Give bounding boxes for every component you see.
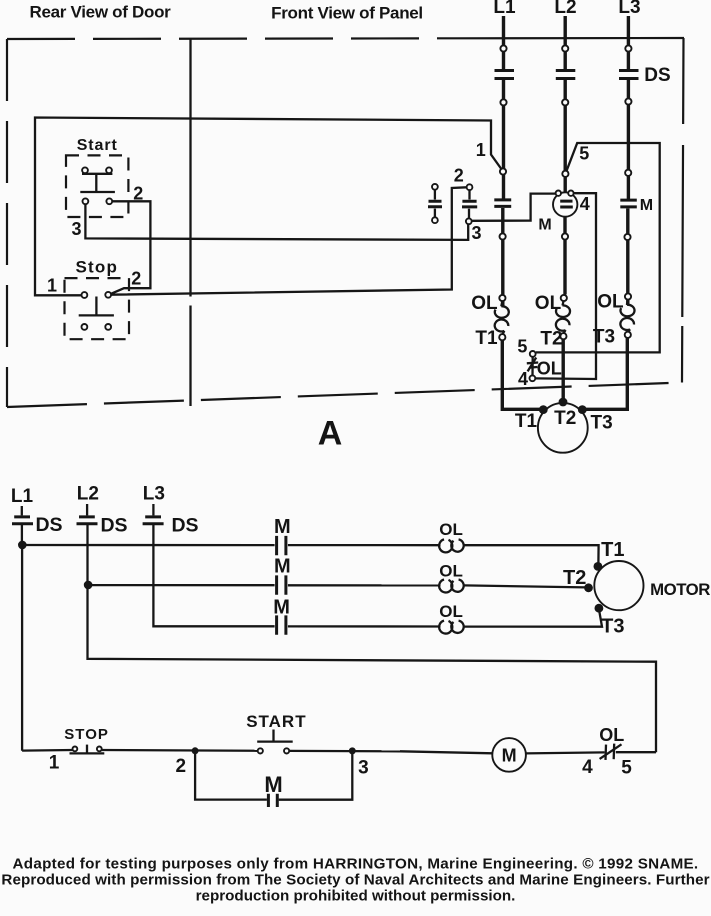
B T3 junction dot: [595, 604, 604, 613]
control rung wire start to dot3: [289, 750, 400, 753]
motor A T1 junction dot: [539, 405, 548, 414]
B M contact 2 bars: [277, 575, 286, 594]
coil M control circle: [492, 738, 526, 772]
control rung wire OL to right: [616, 751, 656, 753]
junction dot 2: [192, 747, 199, 754]
L2 OL heater entry circle: [561, 295, 567, 301]
B L3 stub: [152, 504, 154, 515]
B L2 stub lower: [86, 525, 88, 585]
L2 OL heater loops: [556, 301, 570, 334]
OL aux terminal 5: [530, 351, 536, 357]
svg-text:T3: T3: [591, 413, 613, 434]
svg-text:T2: T2: [540, 329, 562, 350]
L3 DS blades: [619, 71, 639, 79]
OL aux heater slash: [528, 358, 537, 372]
L1 OL heater loops: [495, 301, 509, 335]
svg-text:2: 2: [454, 166, 464, 186]
B OL1 loops: [439, 539, 464, 552]
svg-text:4: 4: [518, 369, 528, 389]
svg-text:5: 5: [579, 143, 589, 163]
L2 terminal circle below DS: [562, 99, 568, 105]
Start NO bridge bar: [80, 191, 115, 193]
L3 terminal circle below M: [624, 234, 630, 240]
Stop actuator stem: [95, 297, 97, 316]
wire Start 3 to panel terminal 3: [85, 204, 468, 240]
svg-text:L3: L3: [618, 0, 640, 18]
L2 wire lower: [563, 217, 566, 295]
B M contact 1 bars: [277, 536, 286, 555]
B L1 stub lower: [21, 525, 23, 545]
L2 T2 terminal circle: [560, 333, 566, 339]
svg-text:5: 5: [517, 337, 527, 357]
svg-text:Front View of Panel: Front View of Panel: [271, 4, 423, 23]
START actuator stem: [272, 730, 274, 742]
B rung1 wire left: [22, 544, 274, 546]
L1 M main contact bars: [494, 200, 511, 207]
L2 terminal circle below coil: [562, 233, 568, 239]
motor A circle: [538, 403, 588, 453]
svg-text:M: M: [274, 516, 291, 538]
pushbutton Start dashed case: [66, 155, 128, 217]
knife contact 1 terminal: [500, 168, 506, 174]
L2 DS blades: [556, 71, 576, 79]
wire knife 5 to OL aux 5: [536, 143, 660, 352]
L1 DS blades: [495, 71, 515, 79]
svg-text:OL: OL: [537, 358, 562, 378]
enclosure outline dashed right edge: [682, 38, 684, 383]
STOP actuator stem: [86, 745, 88, 753]
svg-text:1: 1: [476, 140, 486, 160]
motor B circle: [594, 561, 643, 610]
coil M left terminal: [556, 191, 561, 196]
svg-text:M: M: [274, 556, 291, 578]
B L1 drop wire: [21, 545, 23, 751]
L1 wire upper: [502, 16, 505, 69]
B rung1 wire right to T1: [464, 545, 599, 563]
B T2 junction dot: [584, 583, 593, 592]
B L1 stub: [21, 506, 23, 515]
Start lower-left terminal (3): [83, 198, 89, 204]
B OL2 loops: [439, 579, 464, 592]
L3 terminal circle below DS: [625, 98, 631, 104]
B rung3 wire right to T3: [464, 612, 602, 627]
knife contact 5 terminal: [562, 171, 568, 177]
wire terminal 3 to coil M: [472, 194, 555, 221]
Start lower-right terminal (2): [106, 198, 112, 204]
control OL slash: [600, 744, 622, 759]
B rung2 wire right to T2: [464, 585, 586, 587]
enclosure outline dashed bottom edge: [7, 383, 683, 408]
L2 wire upper: [564, 16, 567, 69]
wire Start 2 to stop arm: [108, 201, 151, 295]
svg-text:T1: T1: [601, 539, 624, 561]
L3 wire to motor: [586, 338, 627, 409]
coil M right terminal: [568, 191, 573, 196]
L3 T3 terminal circle: [625, 332, 631, 338]
svg-text:DS: DS: [100, 515, 127, 537]
B L2 stub: [86, 504, 88, 515]
coil M inner bars: [560, 201, 573, 207]
svg-text:Adapted for testing purposes o: Adapted for testing purposes only from H…: [13, 855, 699, 872]
panel spare contact bars: [428, 201, 442, 207]
svg-text:OL: OL: [599, 725, 624, 745]
svg-text:Rear View of Door: Rear View of Door: [29, 3, 171, 22]
svg-text:M: M: [273, 597, 290, 619]
motor A T3 junction dot: [578, 405, 587, 414]
control OL bars: [606, 744, 615, 760]
OL aux terminal 4: [530, 375, 536, 381]
svg-text:OL: OL: [439, 562, 463, 581]
STOP bridge bar: [70, 752, 105, 754]
L1 terminal circle below M: [500, 233, 506, 239]
B T1 junction dot: [594, 562, 603, 571]
Start upper-right terminal: [106, 167, 112, 173]
START right terminal: [284, 748, 289, 753]
terminal block bars: [462, 201, 477, 207]
L1 wire to motor: [502, 340, 546, 409]
svg-text:M: M: [640, 197, 653, 214]
svg-text:M: M: [502, 746, 517, 766]
panel terminal 3: [466, 218, 472, 224]
svg-text:T1: T1: [515, 411, 538, 432]
L3 wire middle: [627, 80, 630, 199]
svg-text:5: 5: [621, 758, 632, 779]
pushbutton Stop dashed case: [65, 278, 130, 339]
L3 OL heater loops: [620, 299, 634, 332]
door/panel divider: [189, 39, 191, 406]
seal-in branch wire: [195, 751, 352, 800]
contactor coil M circle: [553, 192, 577, 216]
Stop spare right terminal: [105, 324, 111, 330]
control rung wire coil to OL: [526, 752, 605, 753]
panel spare contact upper terminal: [432, 184, 438, 190]
wire node2: stop to panel terminal 2: [110, 187, 467, 294]
L2 wire to motor: [562, 339, 565, 400]
svg-text:L3: L3: [143, 484, 165, 505]
B L2 return wire: [88, 585, 657, 752]
L3 wire lower: [626, 209, 629, 306]
svg-text:L2: L2: [554, 0, 576, 18]
svg-text:L2: L2: [77, 484, 99, 505]
B rung1 wire mid: [288, 544, 441, 546]
L1 OL heater entry circle: [499, 295, 505, 301]
enclosure outline dashed top edge: [7, 37, 456, 40]
junction dot 3: [349, 747, 356, 754]
svg-text:3: 3: [358, 758, 369, 779]
L3 wire upper: [627, 16, 630, 69]
B L1 DS blades: [12, 517, 33, 524]
svg-text:Start: Start: [77, 137, 118, 154]
Start actuator stem: [95, 174, 97, 192]
STOP right terminal: [97, 747, 102, 752]
svg-text:DS: DS: [171, 515, 198, 537]
B rung3 wire mid: [288, 625, 441, 627]
panel terminal 2: [467, 184, 473, 190]
L1 terminal circle below DS: [500, 99, 506, 105]
L1 T1 terminal circle: [499, 334, 505, 340]
Start upper-left terminal: [82, 167, 88, 173]
svg-text:1: 1: [49, 753, 60, 774]
L1 terminal circle top: [500, 45, 506, 51]
B L3 drop wire: [153, 525, 274, 626]
svg-text:3: 3: [71, 219, 81, 239]
Stop right terminal: [105, 292, 111, 298]
svg-text:START: START: [246, 712, 306, 731]
svg-text:T1: T1: [475, 328, 498, 349]
svg-text:OL: OL: [597, 291, 624, 312]
wire node1: stop to knife 1: [35, 118, 501, 296]
terminal block stub upper: [468, 190, 470, 199]
Stop left terminal: [82, 292, 88, 298]
panel spare contact stub lower: [434, 209, 436, 218]
enclosure outline dashed left edge: [6, 39, 8, 407]
svg-text:T2: T2: [563, 567, 586, 589]
panel spare contact stub upper: [434, 190, 436, 200]
svg-text:OL: OL: [471, 293, 498, 314]
START left terminal: [258, 748, 263, 753]
B L2 junction dot: [84, 581, 93, 590]
svg-text:OL: OL: [439, 602, 463, 621]
L3 OL heater entry circle: [625, 293, 631, 299]
svg-text:2: 2: [133, 184, 143, 204]
control rung wire left: [22, 749, 73, 752]
wire coil to OL aux 4: [536, 193, 597, 379]
B L3 DS blades: [143, 517, 164, 524]
L2 terminal circle top: [562, 45, 568, 51]
OL aux heater ticks: [527, 363, 538, 368]
svg-text:M: M: [264, 772, 282, 797]
START actuator bar: [257, 740, 293, 742]
L3 terminal circle top: [625, 45, 631, 51]
L3 terminal circle mid: [625, 170, 631, 176]
svg-text:L1: L1: [493, 0, 516, 18]
L1 wire lower: [501, 208, 504, 306]
seal M contact bars: [268, 794, 277, 807]
svg-text:T3: T3: [593, 326, 615, 347]
Start NC bridge bar: [82, 173, 112, 175]
svg-text:A: A: [318, 415, 343, 453]
L3 M main contact bars: [620, 200, 637, 207]
svg-text:M: M: [538, 217, 551, 234]
B L1 junction dot: [18, 541, 27, 550]
B OL3 loops: [439, 621, 464, 634]
svg-text:T2: T2: [554, 408, 576, 429]
svg-text:T3: T3: [601, 616, 624, 638]
terminal block stub lower: [468, 209, 470, 219]
svg-text:Stop: Stop: [76, 258, 119, 277]
control rung wire stop to dot2: [102, 749, 258, 752]
svg-text:OL: OL: [535, 293, 562, 314]
OL aux heater stem: [531, 357, 534, 376]
B M contact 3 bars: [277, 615, 286, 634]
svg-text:2: 2: [176, 756, 187, 777]
svg-text:4: 4: [580, 194, 590, 214]
B rung2 wire left: [88, 584, 275, 586]
control rung wire dot3 to coil: [400, 751, 492, 753]
L2 wire middle: [564, 80, 567, 192]
svg-text:STOP: STOP: [64, 726, 109, 743]
svg-text:1: 1: [47, 275, 57, 295]
svg-text:Reproduced with permission fro: Reproduced with permission from The Soci…: [1, 871, 709, 888]
L1 wire middle: [502, 80, 505, 199]
svg-text:L1: L1: [11, 486, 34, 507]
svg-text:DS: DS: [35, 514, 62, 536]
B rung2 wire mid: [288, 584, 441, 586]
svg-text:reproduction prohibited withou: reproduction prohibited without permissi…: [196, 887, 516, 904]
motor A T2 junction dot: [559, 398, 568, 407]
STOP left terminal: [73, 747, 78, 752]
svg-text:4: 4: [582, 757, 593, 778]
svg-text:2: 2: [131, 269, 141, 289]
svg-text:3: 3: [471, 223, 481, 243]
B L2 DS blades: [77, 517, 98, 524]
Stop spare left terminal: [82, 324, 88, 330]
panel spare contact lower terminal: [432, 217, 438, 223]
Stop bridge bar: [79, 314, 114, 316]
svg-text:OL: OL: [439, 520, 463, 539]
svg-text:MOTOR: MOTOR: [650, 580, 710, 599]
svg-text:DS: DS: [644, 65, 670, 86]
